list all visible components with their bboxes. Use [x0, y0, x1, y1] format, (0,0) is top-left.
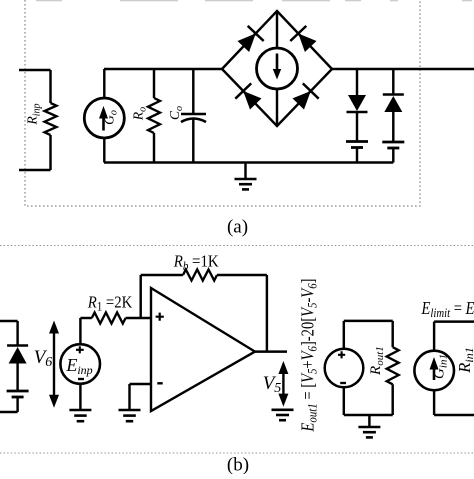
svg-text:Rb =1K: Rb =1K: [173, 252, 220, 273]
bottom wire Eout1 circuit: [343, 387, 345, 415]
svg-text:Rout1: Rout1: [368, 346, 386, 376]
ground under V5: [272, 408, 294, 411]
resistor Rinp: [19, 69, 51, 71]
minus input wire to ground: [130, 383, 152, 385]
svg-text:(a): (a): [227, 217, 248, 238]
wire bottom rail (a): [104, 161, 393, 163]
arrow V5: [282, 371, 284, 397]
dashed enclosure box of network (a): [25, 0, 420, 206]
svg-text:Eout1 = [V5+V6]-20[V5-V6]: Eout1 = [V5+V6]-20[V5-V6]: [298, 278, 320, 432]
output wire: [255, 350, 287, 352]
ground Eout1: [368, 415, 370, 427]
resistor Rb: [183, 270, 217, 281]
svg-text:V6: V6: [34, 347, 53, 370]
svg-text:R1 =2K: R1 =2K: [87, 292, 133, 313]
clamp branch 1: diode D1 + battery: [356, 69, 358, 95]
wire Gin1 bottom: [434, 414, 474, 416]
svg-text:Ro: Ro: [131, 107, 149, 121]
ground under Einp: [69, 409, 91, 412]
op-amp U1: [151, 288, 255, 411]
current source Go: [103, 69, 105, 98]
left clamp branch (cut): diode + battery: [0, 320, 18, 322]
dotted separator top of (b): [0, 245, 474, 247]
current source Gin1: [433, 322, 435, 351]
wire Gin1 top: [434, 320, 474, 322]
resistor R1: [92, 313, 126, 324]
dotted separator bottom of (b): [0, 452, 474, 454]
arrow V6: [53, 331, 55, 398]
svg-text:Rinp: Rinp: [25, 103, 43, 125]
ground (a): [244, 163, 246, 180]
svg-text:Elimit = E: Elimit = E: [421, 298, 474, 320]
resistor Rout1: [391, 321, 393, 347]
bridge diode bottom-right (points to right vertex): [293, 91, 311, 110]
svg-text:Rin1: Rin1: [455, 347, 474, 373]
source Einp: [79, 318, 81, 345]
capacitor Co: [192, 69, 194, 114]
svg-text:Einp: Einp: [65, 355, 92, 377]
resistor Ro: [153, 69, 155, 98]
wire top rail (a): [104, 68, 222, 70]
source Eout1: [325, 349, 364, 388]
diode bridge diamond wires: [222, 11, 332, 126]
feedback wire up: [139, 275, 141, 318]
wire from bridge right vertex to edge: [332, 68, 474, 70]
svg-text:(b): (b): [227, 455, 249, 475]
bridge diode top-right (points to top vertex): [298, 34, 316, 53]
bridge diode bottom-left (points to left vertex): [243, 91, 261, 110]
faint cropped text remnants at top edge: [36, 0, 472, 1]
current source inside bridge: [257, 48, 298, 89]
bridge diode top-left (points to top vertex): [238, 34, 256, 53]
resistor R1 wire: [80, 317, 91, 319]
ground at minus input: [119, 409, 141, 412]
clamp branch 2: diode D2 + battery: [392, 69, 394, 95]
svg-text:V5: V5: [263, 373, 282, 396]
